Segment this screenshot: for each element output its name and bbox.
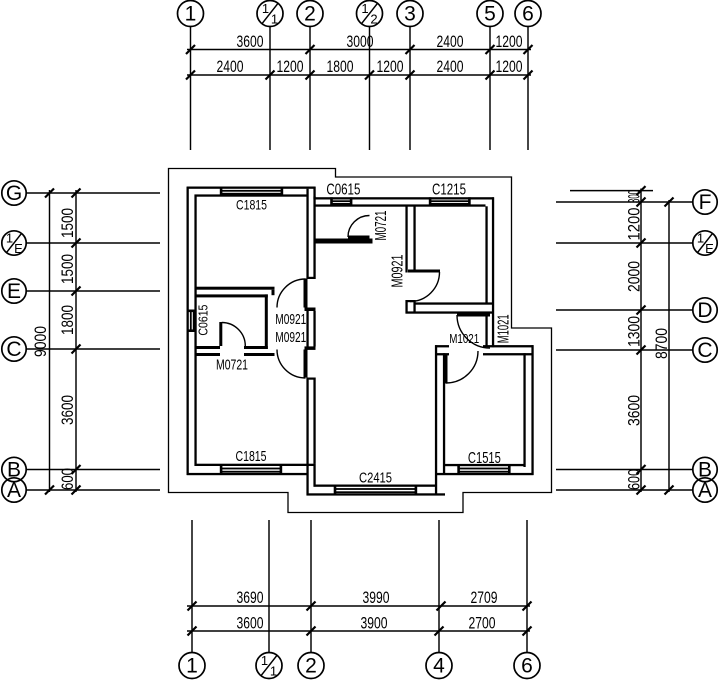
grid line B left xyxy=(27,469,161,471)
interior wall: room1 bottom xyxy=(197,287,275,290)
wall step down to porch wall, east line xyxy=(313,464,315,487)
svg-text:1200: 1200 xyxy=(625,208,644,241)
grid line G left xyxy=(27,192,161,194)
svg-text:C0615: C0615 xyxy=(196,305,211,336)
svg-text:D: D xyxy=(697,299,712,322)
door M0921 lower (vestibule): leaf xyxy=(304,350,308,378)
svg-text:4: 4 xyxy=(433,655,445,678)
grid bubble B left xyxy=(2,457,26,481)
window C1515 xyxy=(457,464,510,475)
svg-text:300: 300 xyxy=(625,190,644,203)
grid bubble 1 top xyxy=(178,1,204,27)
interior wall: small room top xyxy=(197,294,268,297)
wall: C1515 room top, outer line east of door xyxy=(483,345,534,347)
svg-text:2: 2 xyxy=(305,655,317,678)
grid line 4 bottom xyxy=(438,520,440,653)
svg-text:1200: 1200 xyxy=(277,57,304,76)
wall: C1515 room bottom, inner line xyxy=(443,464,526,466)
grid bubble E left xyxy=(2,279,26,303)
grid line 5 top xyxy=(489,27,491,151)
svg-text:1200: 1200 xyxy=(496,32,523,51)
grid line B right xyxy=(556,469,693,471)
window C0615 top xyxy=(330,197,352,206)
door M0921 right: swing arc xyxy=(410,272,440,302)
svg-text:600: 600 xyxy=(58,468,77,490)
wall: C1515 room left, east line xyxy=(443,353,445,475)
eave outline of building xyxy=(169,169,552,513)
grid bubble 6 top xyxy=(515,1,541,27)
svg-text:1200: 1200 xyxy=(377,57,404,76)
wall: right exterior (grid 5), inner line upper xyxy=(485,206,487,304)
wall cap below M0921 door opening xyxy=(406,300,416,302)
bottom dimension line rowA xyxy=(187,605,530,607)
svg-text:600: 600 xyxy=(625,469,644,490)
grid bubble F right xyxy=(693,190,717,214)
grid line F right xyxy=(556,201,693,203)
right dimension line segments xyxy=(640,189,642,493)
interior wall: bottom-left room top, east of door xyxy=(244,353,275,356)
vestibule wall caps at door openings xyxy=(307,277,316,279)
grid bubble 6 bottom xyxy=(514,653,540,679)
grid line 1/E left xyxy=(27,242,161,244)
svg-text:C: C xyxy=(6,338,21,361)
wall: C1215 room left (grid 3), west line below door xyxy=(405,300,407,314)
grid bubble 1/E left xyxy=(2,231,26,257)
grid bubble A right xyxy=(693,478,717,502)
wall: C1215 room bottom, outer line xyxy=(406,311,495,313)
window C0615 left xyxy=(187,310,197,333)
grid bubble 1/1 top xyxy=(257,1,283,27)
interior wall: hall bottom xyxy=(316,239,373,244)
wall: C1215 room left (grid 3), east line below door xyxy=(413,300,415,314)
grid bubble C right xyxy=(693,338,717,362)
door M0921 upper: swing arc xyxy=(277,279,306,308)
exterior wall: middle bottom (C2415), outer line xyxy=(307,493,446,495)
door M0921 upper (vestibule): leaf xyxy=(304,279,308,308)
svg-text:M1021: M1021 xyxy=(449,331,479,346)
grid bubble 1 bottom xyxy=(179,653,205,679)
svg-text:2400: 2400 xyxy=(437,57,464,76)
svg-text:1800: 1800 xyxy=(58,305,77,335)
svg-text:1: 1 xyxy=(361,1,368,16)
svg-text:1500: 1500 xyxy=(58,208,77,238)
svg-text:2: 2 xyxy=(304,3,316,26)
door M0721 top hall: swing arc xyxy=(348,216,370,238)
exterior wall: left, inner line xyxy=(194,195,196,467)
grid line C right xyxy=(556,349,693,351)
svg-text:1: 1 xyxy=(186,655,198,678)
grid line 1/1 top xyxy=(269,27,271,151)
wall: C1515 room bottom, outer line xyxy=(435,473,534,475)
svg-text:M0921: M0921 xyxy=(275,311,306,328)
svg-text:E: E xyxy=(705,241,714,256)
exterior wall: step between G and F walls xyxy=(313,187,315,200)
right dimension line 8700 xyxy=(668,200,670,492)
grid bubble 2 top xyxy=(297,1,323,27)
svg-text:3600: 3600 xyxy=(58,395,77,425)
grid line 2 top xyxy=(309,27,311,151)
wall: right exterior (grid 5), outer line xyxy=(492,197,494,347)
svg-text:E: E xyxy=(7,280,21,303)
svg-text:C: C xyxy=(697,339,712,362)
svg-text:C1515: C1515 xyxy=(468,450,501,467)
window C1815 top xyxy=(220,187,283,197)
svg-text:C2415: C2415 xyxy=(359,471,392,487)
svg-text:1: 1 xyxy=(697,231,704,246)
svg-text:6: 6 xyxy=(521,655,533,678)
svg-text:M0921: M0921 xyxy=(275,329,306,346)
aux line +300 right xyxy=(570,190,653,192)
wall: C1515 room right, outer line xyxy=(531,345,533,475)
grid bubble G left xyxy=(2,181,26,205)
grid bubble C left xyxy=(2,337,26,361)
svg-text:1: 1 xyxy=(6,231,13,246)
svg-text:3690: 3690 xyxy=(237,588,264,607)
grid line 2 bottom xyxy=(310,520,312,653)
grid line A left xyxy=(27,489,161,491)
wall: C1215 room left (grid 3), east line above door xyxy=(413,206,415,272)
wall: C1515 room left, west line xyxy=(435,345,437,495)
svg-text:E: E xyxy=(14,241,23,256)
svg-text:C1215: C1215 xyxy=(432,182,466,199)
grid line C left xyxy=(27,348,161,350)
door M1021 upper: leaf xyxy=(457,313,490,317)
grid bubble B right xyxy=(693,457,717,481)
svg-text:1200: 1200 xyxy=(496,57,523,76)
door M1021 lower: swing arc xyxy=(446,351,478,383)
vestibule wall (grid 2), east line segments xyxy=(313,197,315,280)
grid line 1/1 bottom xyxy=(268,520,270,653)
svg-text:M0721: M0721 xyxy=(216,357,248,374)
wall: right exterior (grid 5), inner line lower xyxy=(485,314,487,348)
top dimension line row1 xyxy=(187,49,531,51)
interior wall: bottom-left room top, west of door xyxy=(197,353,221,356)
wall: C1515 room top, outer line west of door xyxy=(435,345,449,347)
door M0721 top hall: leaf xyxy=(348,236,370,240)
door M0721 left (small room): leaf xyxy=(219,322,222,346)
svg-text:1300: 1300 xyxy=(625,316,644,347)
grid bubble 1/E right xyxy=(693,231,717,257)
vestibule wall (grid 2), west line segments xyxy=(306,189,308,279)
door M0921 right (C1215 room): leaf xyxy=(408,270,440,273)
grid bubble D right xyxy=(693,298,717,322)
svg-text:C0615: C0615 xyxy=(326,182,360,199)
svg-text:C1815: C1815 xyxy=(236,449,267,465)
door M0921 lower: swing arc xyxy=(277,350,306,379)
svg-text:2709: 2709 xyxy=(471,588,498,607)
window C1815 bottom xyxy=(220,464,282,475)
top dimension line row2 xyxy=(187,74,531,76)
grid line 6 top xyxy=(527,27,529,151)
svg-text:1: 1 xyxy=(270,664,277,679)
wall step down to porch wall, west line xyxy=(306,473,308,495)
exterior wall: left, outer line xyxy=(187,187,189,475)
grid bubble A left xyxy=(2,478,26,502)
door M1021 upper: swing arc xyxy=(457,315,490,348)
exterior wall: left block bottom, inner line xyxy=(197,464,316,466)
svg-text:3600: 3600 xyxy=(237,32,264,51)
grid bubble 4 bottom xyxy=(426,653,452,679)
svg-text:3900: 3900 xyxy=(361,614,388,633)
svg-text:G: G xyxy=(6,182,22,205)
svg-text:3: 3 xyxy=(404,3,416,26)
left dimension line segments xyxy=(75,190,77,492)
wall: C1215 room bottom, inner line xyxy=(414,302,493,304)
exterior wall: left block top, inner line xyxy=(195,194,308,196)
wall: C1215 room left (grid 3), west line above door xyxy=(405,206,407,272)
grid line 1/2 top xyxy=(369,27,371,151)
svg-text:M0921: M0921 xyxy=(390,254,407,287)
svg-text:6: 6 xyxy=(522,3,534,26)
exterior wall: left block top, outer line xyxy=(187,187,316,189)
svg-text:M0721: M0721 xyxy=(373,210,390,240)
window C2415 xyxy=(334,485,418,496)
exterior wall: left block bottom, outer line xyxy=(187,473,309,475)
exterior wall: middle bottom (C2415), inner line xyxy=(314,485,438,487)
wall: C1515 room right, inner line xyxy=(523,353,525,467)
svg-text:A: A xyxy=(7,479,21,502)
svg-text:9000: 9000 xyxy=(31,326,50,357)
svg-text:1: 1 xyxy=(271,12,278,27)
grid line A right xyxy=(556,489,693,491)
svg-text:5: 5 xyxy=(484,3,496,26)
svg-text:1: 1 xyxy=(262,1,269,16)
door M1021 lower: leaf xyxy=(444,354,448,384)
grid line 3 top xyxy=(409,27,411,151)
svg-text:C1815: C1815 xyxy=(236,196,267,212)
grid line 1 bottom xyxy=(191,520,193,653)
grid bubble 5 top xyxy=(477,1,503,27)
left dimension line 9000 xyxy=(49,190,51,492)
svg-text:2400: 2400 xyxy=(217,57,244,76)
svg-text:1: 1 xyxy=(185,3,197,26)
bottom dimension line rowB xyxy=(187,630,530,632)
grid bubble 3 top xyxy=(397,1,423,27)
svg-text:1: 1 xyxy=(261,653,268,668)
interior wall: small room bottom, east of door xyxy=(244,346,268,349)
svg-text:3600: 3600 xyxy=(237,614,264,633)
grid bubble 1/2 top xyxy=(357,1,383,27)
svg-text:F: F xyxy=(699,191,712,214)
svg-text:8700: 8700 xyxy=(652,328,671,359)
grid line 6 bottom xyxy=(526,520,528,653)
window C1215 xyxy=(429,197,471,206)
svg-text:2700: 2700 xyxy=(469,614,496,633)
interior wall: small room right xyxy=(265,294,268,349)
interior wall: small room bottom, west of door xyxy=(197,346,221,349)
grid bubble 2 bottom xyxy=(298,653,324,679)
svg-text:1800: 1800 xyxy=(327,57,354,76)
svg-text:2400: 2400 xyxy=(437,32,464,51)
interior wall: room1 bottom end jamb xyxy=(272,290,275,296)
svg-text:M1021: M1021 xyxy=(496,314,513,343)
exterior wall: right block top, outer line xyxy=(314,197,495,199)
svg-text:1500: 1500 xyxy=(58,254,77,284)
grid line 1/E right xyxy=(556,242,693,244)
svg-text:2000: 2000 xyxy=(625,261,644,292)
svg-text:3000: 3000 xyxy=(347,32,374,51)
svg-text:2: 2 xyxy=(370,12,377,27)
grid bubble 1/1 bottom xyxy=(256,653,282,679)
wall: C1515 room top, inner line east of door xyxy=(483,353,534,355)
grid line E left xyxy=(27,290,161,292)
grid line D right xyxy=(556,309,693,311)
grid line 1 top xyxy=(190,27,192,151)
svg-text:3990: 3990 xyxy=(363,588,390,607)
exterior wall: right block top, inner line xyxy=(316,204,486,206)
svg-text:3600: 3600 xyxy=(625,395,644,426)
door M0721 left: swing arc xyxy=(222,323,246,347)
svg-text:A: A xyxy=(698,479,712,502)
wall: C1515 room top, inner line west of door xyxy=(435,353,449,355)
